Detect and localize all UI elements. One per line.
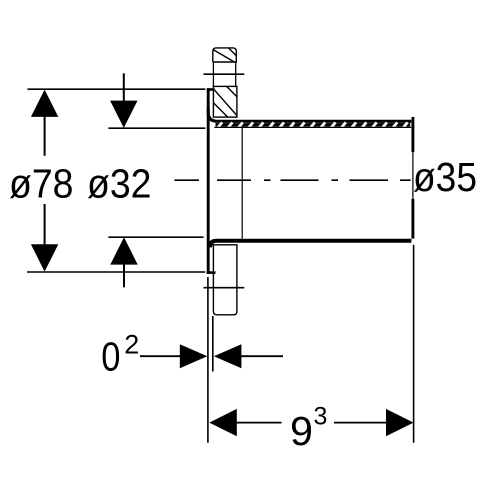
centerline xyxy=(175,179,411,181)
gasket connector edges xyxy=(213,62,235,86)
tube bottom wall xyxy=(210,241,412,248)
flange front plate xyxy=(207,88,216,274)
svg-text:2: 2 xyxy=(124,330,139,360)
tube top wall inner line xyxy=(214,126,411,128)
dim o78 top arrow xyxy=(31,90,58,117)
svg-text:ø35: ø35 xyxy=(413,154,477,200)
tube top wall outer line with corner xyxy=(208,108,411,121)
dim o78 bottom arrow xyxy=(31,244,58,271)
svg-text:ø32: ø32 xyxy=(87,161,152,207)
svg-text:9: 9 xyxy=(290,408,313,454)
svg-text:0: 0 xyxy=(101,334,120,380)
flange rear upper hatched block xyxy=(213,86,237,117)
tube interior back edge xyxy=(241,127,243,238)
svg-text:3: 3 xyxy=(314,403,328,431)
svg-text:ø78: ø78 xyxy=(9,161,74,207)
bottom crossing line xyxy=(204,287,245,289)
flange rear top gasket block (hatched) xyxy=(213,48,237,62)
dim o32 bottom arrow xyxy=(110,237,137,264)
tube right end edge xyxy=(411,117,414,239)
top crossing line xyxy=(204,73,245,75)
dim 93 line and arrows xyxy=(209,409,413,436)
dim o32 top arrow xyxy=(110,101,137,128)
tube top wall section hatch band xyxy=(216,122,411,127)
dim 02 line and arrows xyxy=(140,344,283,368)
dimension extension lines xyxy=(27,89,414,443)
flange rear bottom block xyxy=(207,245,237,315)
